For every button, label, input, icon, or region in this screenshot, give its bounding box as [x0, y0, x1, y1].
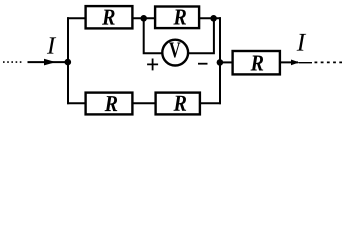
wire: input lead	[28, 61, 68, 63]
wire: output dotted lead-out	[315, 61, 343, 63]
wire: bottom rail middle segment	[132, 102, 155, 104]
voltmeter V1 circle	[162, 40, 188, 66]
arrowhead: output current direction	[291, 60, 299, 66]
wire: voltmeter − lead to node B	[188, 19, 214, 54]
wire: output lead right	[280, 61, 298, 63]
resistor R (output)	[233, 51, 280, 74]
arrowhead: input current direction	[44, 59, 56, 66]
label + (voltmeter positive terminal)	[147, 59, 158, 71]
wire: output thin tail	[299, 62, 313, 64]
wire: bottom rail left segment	[67, 102, 87, 104]
wire: top rail right segment	[199, 17, 221, 19]
junction node B (voltmeter − tap)	[210, 15, 217, 22]
wire: top rail between resistors	[132, 17, 155, 19]
junction node: input	[65, 59, 72, 66]
wire: left vertical bus	[67, 17, 69, 104]
wire: output lead left	[219, 61, 233, 63]
wire: right vertical bus	[219, 17, 221, 104]
junction node: output tap	[217, 59, 224, 66]
resistor R (top right)	[155, 7, 199, 29]
label V (voltmeter)	[169, 42, 180, 57]
wire: voltmeter + lead from node A	[144, 19, 163, 54]
resistor R (top left)	[86, 6, 133, 28]
wire: bottom rail right segment	[199, 102, 221, 104]
label I (input current)	[47, 37, 56, 53]
label I (output current)	[297, 34, 307, 51]
wire: input dotted lead-in	[3, 61, 22, 63]
junction node A (voltmeter + tap)	[140, 15, 147, 22]
resistor R (bottom left)	[86, 93, 133, 115]
wire: top rail left segment	[67, 17, 87, 19]
label − (voltmeter negative terminal)	[198, 63, 208, 65]
resistor R (bottom right)	[156, 93, 200, 115]
